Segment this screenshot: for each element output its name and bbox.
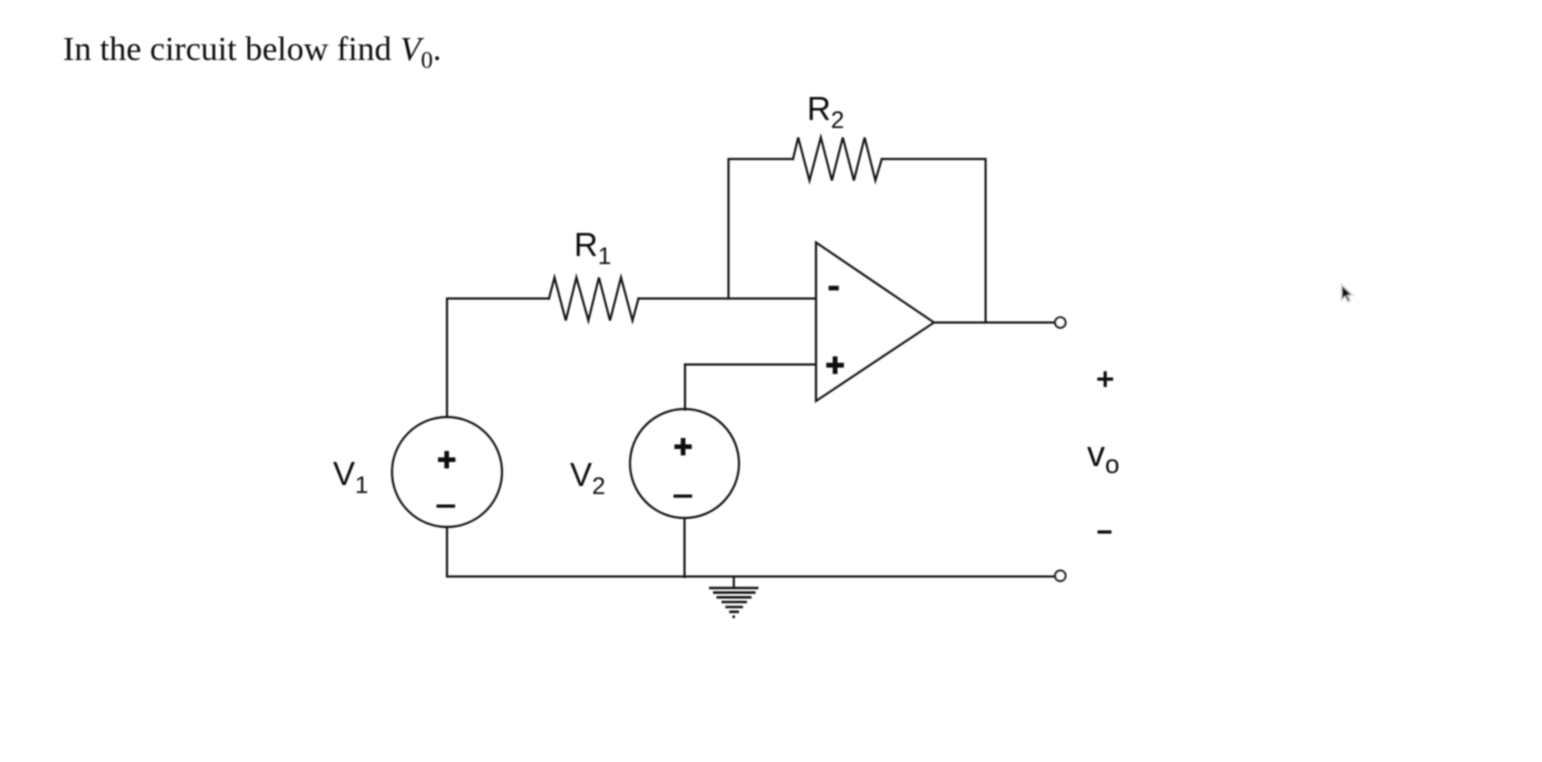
wire <box>685 363 816 365</box>
svg-text:R1: R1 <box>574 226 611 270</box>
source V1 plus <box>438 451 455 468</box>
source V1 minus <box>437 505 456 508</box>
wire <box>639 297 817 299</box>
output plus sign <box>1097 371 1113 387</box>
wire <box>729 159 794 299</box>
source V2 <box>630 409 739 518</box>
source V2 minus <box>674 495 693 498</box>
node output bottom terminal <box>1055 571 1065 581</box>
svg-text:V1: V1 <box>333 455 368 499</box>
resistor R2 <box>793 138 882 181</box>
op-amp minus pin <box>829 286 839 291</box>
svg-text:R2: R2 <box>807 90 844 134</box>
wire <box>882 159 986 323</box>
output minus sign <box>1098 530 1112 533</box>
ground <box>709 588 759 617</box>
op-amp U1 <box>816 243 934 402</box>
svg-text:vo: vo <box>1087 433 1119 479</box>
source V1 <box>392 417 502 527</box>
wire <box>684 365 686 410</box>
wire <box>447 527 1055 577</box>
wire <box>447 299 549 418</box>
source V2 plus <box>674 438 691 455</box>
svg-text:In the circuit below find V0.: In the circuit below find V0. <box>63 31 441 74</box>
wire <box>683 518 685 577</box>
ground <box>733 577 735 587</box>
node output top terminal <box>1055 317 1065 327</box>
wire <box>934 321 1055 323</box>
svg-text:V2: V2 <box>570 456 605 500</box>
resistor R1 <box>549 278 639 321</box>
cursor <box>1342 285 1353 303</box>
op-amp plus pin <box>826 356 844 374</box>
